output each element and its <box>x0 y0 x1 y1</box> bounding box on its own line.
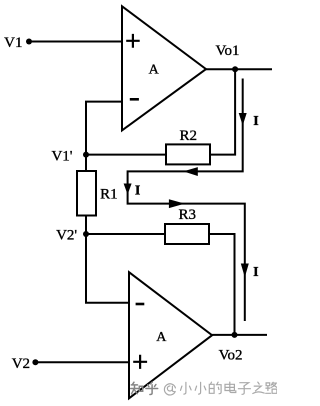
svg-text:A: A <box>156 330 167 345</box>
svg-text:A: A <box>149 63 160 78</box>
svg-text:R3: R3 <box>178 207 196 223</box>
current I arrowhead down beside Vo2 <box>241 264 249 278</box>
node Vo2 junction dot <box>232 332 238 338</box>
wire R3 right terminal down to node Vo2 <box>209 234 235 335</box>
svg-text:V1: V1 <box>4 35 22 51</box>
wire A1 inverting input to node V1' <box>86 102 122 155</box>
svg-text:I: I <box>253 265 258 280</box>
wire A2 output to right edge <box>212 334 267 336</box>
wire R1 bottom terminal to node V2' <box>85 216 87 235</box>
op-amp A2 (bottom) triangle body <box>129 272 212 398</box>
node V2' junction dot <box>83 231 89 237</box>
wire A1 output to right edge <box>206 68 272 70</box>
current I arrowhead down beside Vo1 <box>239 113 247 126</box>
resistor R1 <box>77 171 96 216</box>
op-amp A2 noninverting input plus mark <box>133 355 147 369</box>
svg-text:Vo2: Vo2 <box>219 347 243 363</box>
svg-text:I: I <box>135 183 140 198</box>
op-amp A2 inverting input minus mark <box>136 303 145 306</box>
wire Vo1 down and left to R2 right terminal <box>210 69 235 154</box>
op-amp A1 (top) triangle body <box>122 6 206 130</box>
current I arrowhead right above R3 <box>169 199 185 208</box>
wire node V1' to R1 top terminal <box>85 155 87 171</box>
svg-text:Vo1: Vo1 <box>216 43 240 59</box>
svg-text:R2: R2 <box>179 128 197 144</box>
current I arrowhead down beside R1 <box>124 184 132 195</box>
svg-text:V2: V2 <box>12 356 30 372</box>
svg-text:I: I <box>253 114 258 129</box>
wire R2 left terminal to node V1' <box>86 154 166 156</box>
current I arrowhead left below R2 <box>183 167 198 176</box>
node Vo1 junction dot <box>232 66 238 72</box>
op-amp A1 noninverting input plus mark <box>126 34 140 48</box>
wire node V2' to R3 left terminal <box>86 233 165 235</box>
wire node V2' to A2 inverting input <box>86 234 129 303</box>
node V2 terminal dot <box>32 359 38 365</box>
wire V2 to A2 noninverting input <box>35 361 129 363</box>
wire V1 to A1 noninverting input <box>29 41 122 43</box>
op-amp A1 inverting input minus mark <box>130 98 139 101</box>
node V1' junction dot <box>83 152 89 158</box>
resistor R2 <box>166 144 210 164</box>
watermark username text <box>164 382 277 395</box>
svg-text:R1: R1 <box>100 187 118 203</box>
node V1 terminal dot <box>26 39 32 45</box>
watermark zhihu logo text <box>131 382 158 394</box>
svg-text:V1': V1' <box>51 149 72 165</box>
svg-text:V2': V2' <box>56 228 77 244</box>
resistor R3 <box>165 224 209 244</box>
current I indicator path from Vo1 through R2 R1 R3 to Vo2 <box>128 79 245 322</box>
